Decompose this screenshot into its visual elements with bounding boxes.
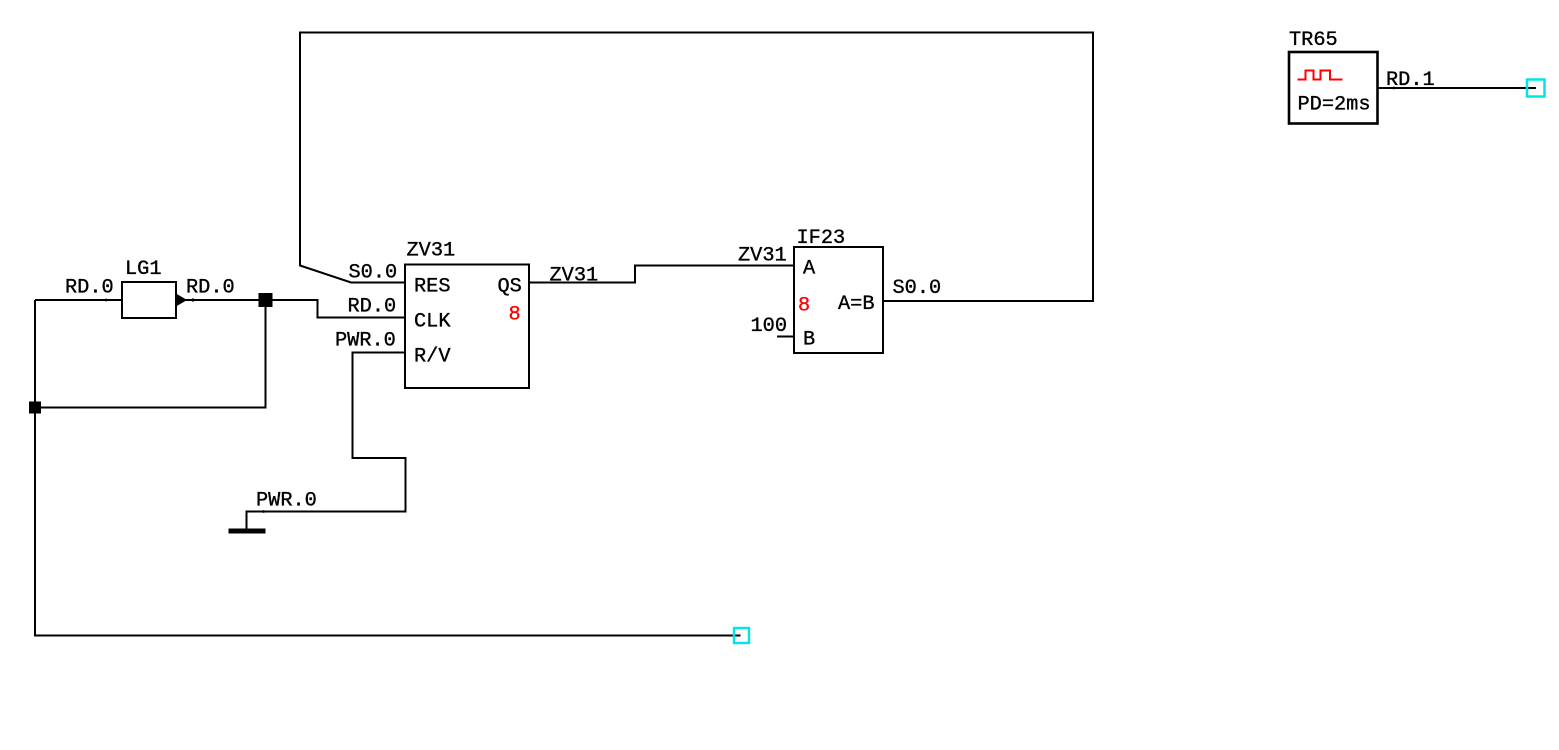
block IF23	[794, 247, 883, 353]
net label PWR.0 at R/V	[335, 330, 396, 353]
wire RD.0 left input to LG1	[35, 299, 122, 302]
junction at left bus	[29, 402, 41, 414]
svg-text:RD.1: RD.1	[1386, 69, 1435, 92]
svg-text:TR65: TR65	[1289, 29, 1338, 52]
net label ZV31 at IF23 A input	[738, 245, 787, 268]
net label RD.0 left of LG1	[65, 277, 114, 300]
terminal (cyan) bottom	[734, 628, 749, 643]
svg-text:PD=2ms: PD=2ms	[1298, 94, 1371, 117]
svg-text:ZV31: ZV31	[738, 245, 787, 268]
pulse waveform icon (red)	[1298, 71, 1343, 80]
junction at RD.0 node	[259, 293, 273, 307]
wire RD.0 from LG1 output to junction	[176, 298, 266, 301]
wire left vertical bus down to terminal	[35, 300, 741, 636]
label IF23 title	[797, 227, 846, 250]
wire PWR.0 to ZV31 R/V	[247, 353, 406, 531]
svg-text:IF23: IF23	[797, 227, 846, 250]
value label 8 (red) in ZV31	[509, 304, 521, 327]
svg-text:PWR.0: PWR.0	[335, 330, 396, 353]
label LG1	[125, 258, 162, 281]
terminal (cyan) top right	[1527, 80, 1545, 97]
svg-text:100: 100	[751, 315, 788, 338]
pin label R/V	[414, 346, 451, 369]
block TR65	[1289, 52, 1378, 124]
wire feedback loop S0.0 from IF23 output to ZV31 RES	[300, 33, 1093, 302]
svg-text:S0.0: S0.0	[349, 262, 398, 285]
svg-text:ZV31: ZV31	[550, 265, 599, 288]
pin label A	[803, 258, 816, 281]
svg-text:R/V: R/V	[414, 346, 451, 369]
net label S0.0 at ZV31 RES input	[349, 262, 398, 285]
svg-text:ZV31: ZV31	[407, 240, 456, 263]
svg-text:A=B: A=B	[838, 293, 875, 316]
net label PWR.0 at ground	[256, 490, 317, 513]
block ZV31	[405, 265, 529, 389]
pin label A=B	[838, 293, 875, 316]
wire ZV31 QS output to IF23 A input	[529, 266, 794, 283]
wire RD.0 junction to ZV31 CLK	[266, 300, 406, 318]
value label 100 at B input	[751, 315, 788, 338]
value label PD=2ms	[1298, 94, 1371, 117]
svg-text:RES: RES	[414, 276, 451, 299]
svg-text:8: 8	[798, 295, 810, 318]
svg-text:RD.0: RD.0	[65, 277, 114, 300]
net label ZV31 at QS output	[550, 265, 599, 288]
svg-text:S0.0: S0.0	[893, 277, 942, 300]
svg-text:RD.0: RD.0	[348, 296, 397, 319]
svg-text:PWR.0: PWR.0	[256, 490, 317, 513]
svg-text:A: A	[803, 258, 816, 281]
block LG1	[122, 282, 187, 318]
wire junction branch vertical and horizontal	[35, 300, 266, 408]
svg-text:RD.0: RD.0	[186, 277, 235, 300]
svg-text:8: 8	[509, 304, 521, 327]
label TR65 title	[1289, 29, 1338, 52]
wire RD.1 from TR65 to terminal	[1378, 87, 1537, 90]
svg-text:QS: QS	[498, 276, 522, 299]
ground symbol	[229, 529, 266, 534]
wire stub 100 to IF23 B	[777, 336, 794, 338]
pin label B	[803, 329, 815, 352]
pin label CLK	[414, 311, 451, 334]
net label RD.0 at CLK	[348, 296, 397, 319]
net label RD.0 right of LG1	[186, 277, 235, 300]
net label RD.1	[1386, 69, 1435, 92]
net label S0.0 at IF23 output	[893, 277, 942, 300]
svg-text:CLK: CLK	[414, 311, 451, 334]
svg-text:B: B	[803, 329, 815, 352]
value label 8 (red) in IF23	[798, 295, 810, 318]
label ZV31 title	[407, 240, 456, 263]
svg-text:LG1: LG1	[125, 258, 162, 281]
pin label RES	[414, 276, 451, 299]
pin label QS	[498, 276, 522, 299]
